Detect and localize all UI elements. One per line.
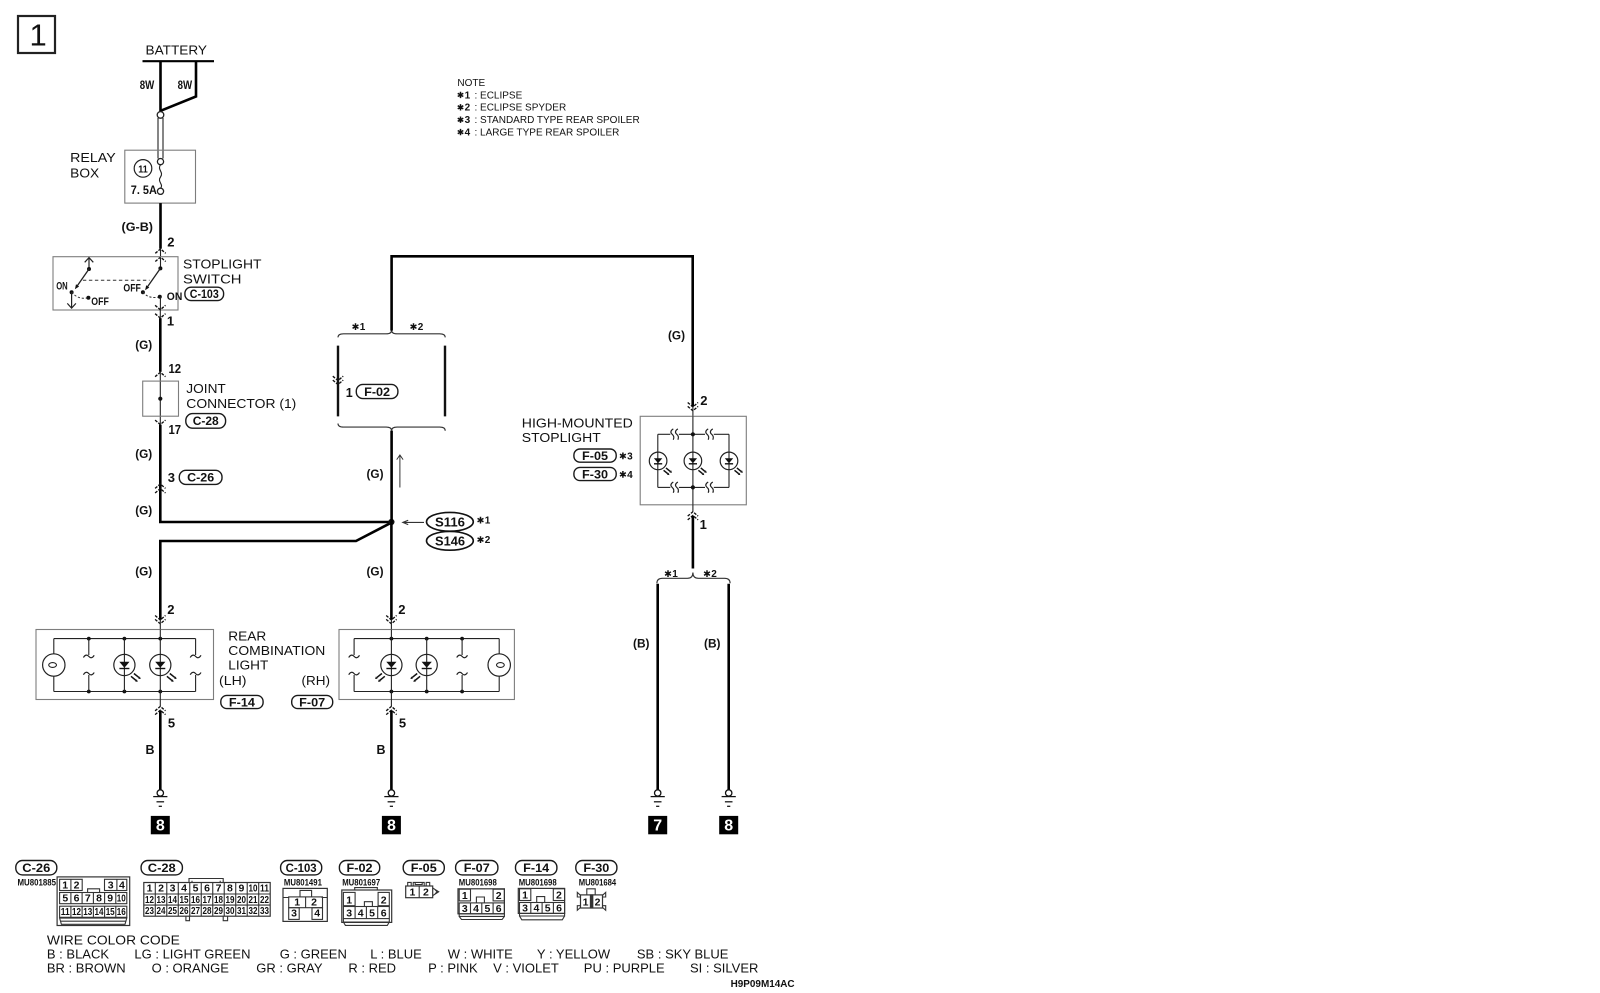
high-mounted stoplight F-05 label — [574, 449, 616, 462]
svg-text:2: 2 — [465, 103, 471, 114]
svg-text:(G): (G) — [135, 504, 152, 518]
connector F-02 bars — [337, 346, 339, 417]
svg-text:(G): (G) — [668, 329, 685, 343]
svg-text:Y : YELLOW: Y : YELLOW — [537, 947, 611, 962]
svg-text:3: 3 — [462, 903, 468, 915]
svg-text:C-103: C-103 — [190, 287, 219, 301]
wire (B) right to ground 8 — [727, 584, 730, 790]
svg-text:F-30: F-30 — [583, 861, 609, 875]
high-mounted stoplight box — [640, 416, 746, 505]
svg-text:(G): (G) — [367, 565, 384, 579]
svg-text:4: 4 — [627, 470, 633, 481]
fuse 11 7.5A — [134, 160, 152, 178]
brace *1/*2 ground wires — [657, 573, 730, 584]
svg-text:1: 1 — [62, 879, 68, 891]
connector F-02 under-brace — [338, 424, 445, 431]
svg-text:F-07: F-07 — [464, 861, 490, 875]
rear light LH bulb — [53, 639, 55, 654]
svg-text:C-103: C-103 — [286, 861, 317, 875]
svg-text:2: 2 — [423, 887, 429, 899]
svg-text:1: 1 — [485, 516, 491, 527]
svg-text:26: 26 — [180, 905, 189, 917]
svg-text:COMBINATION: COMBINATION — [228, 643, 325, 658]
svg-text:SI : SILVER: SI : SILVER — [690, 961, 758, 976]
svg-text:WIRE COLOR CODE: WIRE COLOR CODE — [47, 933, 180, 948]
rear light RH F-07 label — [292, 695, 333, 708]
stoplight switch C-103 box — [53, 257, 178, 310]
svg-text:28: 28 — [203, 905, 212, 917]
svg-text:4: 4 — [533, 903, 539, 915]
svg-text:HIGH-MOUNTED: HIGH-MOUNTED — [522, 415, 633, 430]
svg-text:STOPLIGHT: STOPLIGHT — [183, 256, 262, 271]
svg-text:: STANDARD TYPE REAR SPOILER: : STANDARD TYPE REAR SPOILER — [472, 115, 640, 126]
svg-text:PU : PURPLE: PU : PURPLE — [584, 961, 665, 976]
svg-text:7. 5A: 7. 5A — [131, 183, 157, 197]
svg-text:5: 5 — [168, 716, 175, 731]
svg-text:24: 24 — [157, 905, 166, 917]
high-mounted stoplight LED left — [649, 452, 667, 470]
svg-text:2: 2 — [381, 895, 387, 907]
svg-text:NOTE: NOTE — [457, 78, 485, 89]
svg-text:8: 8 — [387, 818, 396, 835]
svg-text:F-07: F-07 — [299, 695, 325, 709]
svg-text:G : GREEN: G : GREEN — [280, 947, 347, 962]
svg-text:4: 4 — [473, 903, 479, 915]
stoplight switch left contact — [85, 258, 94, 269]
svg-text:F-02: F-02 — [347, 861, 373, 875]
svg-text:C-28: C-28 — [148, 861, 176, 875]
connector pinout C-103 — [281, 861, 322, 875]
svg-text:2: 2 — [398, 602, 405, 617]
stoplight switch linkage dashed line — [83, 279, 150, 281]
svg-text:4: 4 — [181, 883, 187, 895]
wire (B) left to ground 7 — [656, 584, 659, 790]
svg-text:2: 2 — [418, 322, 424, 333]
svg-text:1: 1 — [465, 90, 471, 101]
svg-text:: LARGE TYPE REAR SPOILER: : LARGE TYPE REAR SPOILER — [472, 128, 620, 139]
svg-text:(B): (B) — [704, 637, 721, 651]
svg-text:R : RED: R : RED — [348, 961, 396, 976]
svg-text:2: 2 — [158, 883, 164, 895]
svg-text:15: 15 — [106, 906, 115, 918]
svg-text:(G-B): (G-B) — [122, 220, 154, 234]
svg-text:8W: 8W — [140, 78, 155, 92]
svg-text:7: 7 — [216, 883, 222, 895]
ground 8 right — [726, 790, 732, 796]
svg-text:1: 1 — [30, 18, 47, 53]
svg-text:SWITCH: SWITCH — [183, 271, 242, 286]
svg-text:LG : LIGHT GREEN: LG : LIGHT GREEN — [134, 947, 250, 962]
rear light RH inline terminals right — [461, 639, 463, 655]
wire horizontal splice to rear light LH — [160, 523, 391, 620]
svg-text:3: 3 — [108, 879, 114, 891]
svg-text:16: 16 — [117, 906, 126, 918]
svg-text:9: 9 — [107, 893, 113, 905]
svg-text:F-05: F-05 — [582, 449, 608, 463]
svg-text:V : VIOLET: V : VIOLET — [493, 961, 559, 976]
svg-text:SB : SKY BLUE: SB : SKY BLUE — [637, 947, 729, 962]
svg-text:MU801697: MU801697 — [342, 877, 380, 887]
svg-text:4: 4 — [465, 128, 471, 139]
rear light LH F-14 label — [221, 695, 263, 708]
svg-text:29: 29 — [214, 905, 223, 917]
svg-text:F-30: F-30 — [582, 467, 608, 481]
svg-text:1: 1 — [672, 569, 678, 580]
svg-text:32: 32 — [248, 905, 257, 917]
rear light LH LED 1 — [123, 639, 125, 692]
svg-text:3: 3 — [291, 908, 297, 920]
svg-text:F-05: F-05 — [411, 861, 437, 875]
rear light RH LED 2 — [426, 639, 428, 692]
rear light RH inline terminals left — [353, 639, 355, 655]
high-mounted stoplight LED middle — [684, 452, 702, 470]
svg-text:P : PINK: P : PINK — [428, 961, 478, 976]
fusible link 8W right wire — [161, 61, 196, 110]
svg-text:6: 6 — [204, 883, 210, 895]
svg-text:H9P09M14AC: H9P09M14AC — [731, 978, 795, 990]
svg-text:3: 3 — [627, 451, 633, 462]
svg-text:(G): (G) — [135, 447, 152, 461]
svg-text:B: B — [377, 742, 386, 757]
svg-text:5: 5 — [193, 883, 199, 895]
svg-text:14: 14 — [95, 906, 104, 918]
svg-text:33: 33 — [260, 905, 269, 917]
high-mounted stoplight internal wiring — [692, 416, 694, 505]
svg-text:1: 1 — [360, 322, 366, 333]
wire B RH pin 5 to ground — [390, 700, 392, 706]
ground 8 LH — [157, 790, 163, 796]
svg-text:C-28: C-28 — [193, 414, 219, 428]
svg-text:6: 6 — [496, 903, 502, 915]
svg-text:2: 2 — [700, 393, 707, 408]
connector pinout F-30 — [576, 861, 617, 875]
svg-text:STOPLIGHT: STOPLIGHT — [522, 430, 601, 445]
page number box 1 — [18, 16, 55, 53]
svg-text:C-26: C-26 — [187, 471, 214, 485]
svg-text:: ECLIPSE: : ECLIPSE — [472, 90, 523, 101]
svg-text:2: 2 — [167, 234, 174, 249]
stoplight switch right contact — [158, 266, 162, 270]
svg-text:5: 5 — [369, 907, 375, 919]
svg-text:1: 1 — [147, 883, 153, 895]
svg-text:: ECLIPSE SPYDER: : ECLIPSE SPYDER — [472, 103, 566, 114]
svg-text:3: 3 — [465, 115, 471, 126]
svg-text:OFF: OFF — [91, 296, 109, 308]
svg-text:O : ORANGE: O : ORANGE — [152, 961, 230, 976]
svg-text:BOX: BOX — [70, 165, 99, 180]
rear light LH inline terminals right — [195, 639, 197, 655]
svg-text:5: 5 — [545, 903, 551, 915]
wire horizontal C-26 branch to splice S116 — [160, 521, 391, 522]
connector pinout F-07 — [456, 861, 498, 875]
svg-text:B : BLACK: B : BLACK — [47, 947, 109, 962]
svg-text:11: 11 — [138, 163, 148, 175]
svg-text:(RH): (RH) — [302, 673, 331, 688]
svg-text:1: 1 — [462, 890, 468, 902]
svg-text:W : WHITE: W : WHITE — [448, 947, 513, 962]
svg-text:8: 8 — [227, 883, 233, 895]
svg-text:10: 10 — [117, 893, 126, 905]
rear light RH LED 1 — [390, 630, 392, 701]
svg-text:4: 4 — [119, 879, 125, 891]
connector C-26 inline — [155, 484, 165, 488]
svg-text:11: 11 — [61, 906, 70, 918]
svg-text:2: 2 — [595, 897, 601, 909]
svg-text:3: 3 — [170, 883, 176, 895]
svg-text:6: 6 — [556, 903, 562, 915]
svg-text:MU801684: MU801684 — [579, 877, 617, 887]
rear combination light RH box — [339, 630, 514, 700]
svg-text:8: 8 — [156, 818, 165, 835]
wire (G) splice up to F-02 — [390, 431, 393, 522]
svg-text:2: 2 — [74, 879, 80, 891]
svg-text:S116: S116 — [435, 515, 465, 529]
svg-text:BATTERY: BATTERY — [146, 42, 208, 57]
svg-text:ON: ON — [56, 281, 68, 293]
splice S116/S146 junction — [388, 519, 394, 525]
wire (G) switch pin 1 to joint connector — [155, 305, 165, 309]
svg-text:L : BLUE: L : BLUE — [370, 947, 422, 962]
svg-text:3: 3 — [346, 907, 352, 919]
relay box — [125, 150, 196, 203]
svg-text:2: 2 — [556, 890, 562, 902]
svg-text:1: 1 — [409, 887, 415, 899]
svg-text:30: 30 — [225, 905, 234, 917]
splice S116 label — [403, 520, 424, 524]
svg-text:12: 12 — [72, 906, 81, 918]
svg-text:OFF: OFF — [123, 283, 141, 295]
svg-text:23: 23 — [145, 905, 154, 917]
svg-text:9: 9 — [239, 883, 245, 895]
svg-text:1: 1 — [346, 895, 352, 907]
rear light LH inline terminals left — [88, 639, 90, 655]
svg-text:2: 2 — [496, 890, 502, 902]
svg-text:7: 7 — [85, 893, 91, 905]
svg-text:6: 6 — [74, 893, 80, 905]
svg-text:25: 25 — [168, 905, 177, 917]
svg-text:JOINT: JOINT — [186, 381, 226, 396]
svg-text:(G): (G) — [135, 338, 152, 352]
svg-text:(B): (B) — [633, 637, 650, 651]
svg-text:7: 7 — [653, 818, 662, 835]
svg-text:10: 10 — [248, 883, 257, 895]
svg-text:17: 17 — [169, 422, 182, 437]
svg-text:F-14: F-14 — [523, 861, 549, 875]
connector F-02 over-brace — [338, 330, 445, 337]
svg-text:GR : GRAY: GR : GRAY — [256, 961, 323, 976]
connector pinout C-28 — [141, 861, 182, 875]
svg-text:F-14: F-14 — [229, 695, 255, 709]
wire B LH pin 5 to ground — [159, 700, 161, 706]
wire from F-02 top to high-mounted stoplight — [392, 256, 693, 407]
splice S146 label — [427, 531, 474, 550]
svg-text:3: 3 — [522, 903, 528, 915]
svg-text:MU801698: MU801698 — [519, 877, 557, 887]
svg-text:1: 1 — [583, 897, 589, 909]
joint connector (1) C-28 — [143, 381, 179, 416]
svg-text:(LH): (LH) — [219, 673, 247, 688]
svg-text:RELAY: RELAY — [70, 150, 116, 165]
svg-text:2: 2 — [485, 535, 491, 546]
rear light LH LED 2 — [159, 630, 161, 701]
svg-text:5: 5 — [399, 716, 406, 731]
svg-text:C-26: C-26 — [22, 861, 50, 875]
fusible link 8W left wire — [159, 61, 162, 112]
svg-text:MU801491: MU801491 — [284, 877, 322, 887]
wire (G-B) relay box to stoplight switch — [159, 203, 162, 249]
svg-text:(G): (G) — [135, 565, 152, 579]
svg-text:1: 1 — [522, 890, 528, 902]
svg-text:1: 1 — [167, 314, 174, 329]
ground 8 RH — [388, 790, 394, 796]
rear combination light LH box — [36, 630, 214, 700]
svg-text:F-02: F-02 — [364, 385, 390, 399]
svg-text:1: 1 — [700, 517, 707, 532]
wire high-mounted stoplight pin 1 — [692, 505, 694, 512]
svg-text:3: 3 — [168, 470, 175, 485]
svg-text:LIGHT: LIGHT — [228, 658, 268, 673]
high-mounted stoplight LED right — [720, 452, 738, 470]
svg-text:4: 4 — [314, 908, 320, 920]
svg-text:MU801698: MU801698 — [459, 877, 497, 887]
svg-text:1: 1 — [346, 386, 353, 400]
svg-text:S146: S146 — [435, 534, 465, 548]
rear light RH internal bus — [354, 638, 499, 640]
high-mounted stoplight F-30 label — [574, 467, 616, 480]
svg-text:27: 27 — [191, 905, 200, 917]
connector pinout C-26 — [16, 861, 57, 875]
svg-text:2: 2 — [711, 569, 717, 580]
ground 7 — [655, 790, 661, 796]
rear light RH bulb — [498, 639, 500, 654]
svg-text:8: 8 — [724, 818, 733, 835]
svg-text:B: B — [146, 742, 155, 757]
rear light LH internal bus — [54, 638, 196, 640]
svg-text:MU801885: MU801885 — [18, 877, 57, 887]
svg-text:11: 11 — [260, 883, 269, 895]
connector pinout F-14 — [516, 861, 557, 875]
connector pinout F-02 — [339, 861, 379, 875]
svg-text:12: 12 — [169, 361, 182, 376]
svg-text:CONNECTOR (1): CONNECTOR (1) — [186, 396, 296, 411]
connector pinout F-05 — [403, 861, 444, 875]
svg-text:8W: 8W — [178, 78, 193, 92]
svg-text:(G): (G) — [367, 467, 384, 481]
svg-text:13: 13 — [83, 906, 92, 918]
svg-text:BR : BROWN: BR : BROWN — [47, 961, 126, 976]
svg-text:5: 5 — [62, 893, 68, 905]
fusible link symbol — [157, 112, 164, 119]
svg-text:6: 6 — [381, 907, 387, 919]
svg-text:31: 31 — [237, 905, 246, 917]
wire (G) joint connector to C-26 — [155, 420, 165, 424]
svg-text:5: 5 — [484, 903, 490, 915]
svg-text:8: 8 — [96, 893, 102, 905]
svg-text:4: 4 — [358, 907, 364, 919]
svg-text:REAR: REAR — [228, 628, 266, 643]
svg-text:2: 2 — [167, 602, 174, 617]
svg-text:ON: ON — [167, 291, 183, 303]
